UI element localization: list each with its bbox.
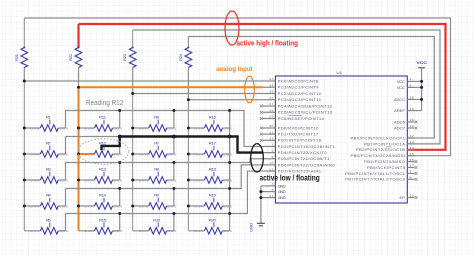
svg-text:24: 24 bbox=[269, 84, 273, 87]
svg-text:DKA: DKA bbox=[139, 153, 149, 156]
svg-text:CO6: CO6 bbox=[59, 230, 68, 233]
svg-text:PB3/PCINT3/OC2A/MOSI: PB3/PCINT3/OC2A/MOSI bbox=[351, 154, 405, 157]
svg-text:R13: R13 bbox=[99, 167, 107, 171]
svg-text:DKA: DKA bbox=[139, 179, 149, 182]
svg-text:R12: R12 bbox=[99, 141, 106, 145]
svg-text:DKA: DKA bbox=[85, 179, 95, 182]
svg-text:PC2/ADC2/PCINT10: PC2/ADC2/PCINT10 bbox=[278, 92, 322, 95]
svg-text:26: 26 bbox=[269, 96, 273, 99]
svg-text:CO6: CO6 bbox=[113, 205, 122, 208]
svg-text:R21: R21 bbox=[14, 53, 18, 61]
svg-text:DKA: DKA bbox=[139, 127, 149, 130]
svg-text:DKA: DKA bbox=[85, 153, 95, 156]
svg-text:PB2/PCINT2/SS/OC1B: PB2/PCINT2/SS/OC1B bbox=[356, 149, 406, 152]
svg-text:R22: R22 bbox=[68, 54, 72, 61]
svg-text:R19: R19 bbox=[209, 193, 217, 197]
svg-text:active low / floating: active low / floating bbox=[260, 173, 320, 182]
svg-text:DKA: DKA bbox=[30, 230, 40, 233]
svg-text:PC6/RESET/PCINT14: PC6/RESET/PCINT14 bbox=[278, 117, 324, 120]
svg-text:15: 15 bbox=[410, 152, 414, 155]
svg-text:20: 20 bbox=[410, 107, 414, 110]
svg-text:DKA: DKA bbox=[30, 179, 40, 182]
svg-text:PB1/PCINT1/OC1A: PB1/PCINT1/OC1A bbox=[364, 143, 405, 146]
svg-text:31: 31 bbox=[269, 131, 273, 134]
svg-text:DKA: DKA bbox=[30, 153, 40, 156]
svg-text:R11: R11 bbox=[99, 115, 107, 119]
svg-text:AVCC: AVCC bbox=[394, 98, 405, 101]
svg-text:29: 29 bbox=[269, 115, 273, 118]
svg-text:CO6: CO6 bbox=[59, 179, 68, 182]
svg-text:PD0/RXD/PCINT16: PD0/RXD/PCINT16 bbox=[278, 127, 319, 130]
svg-text:10: 10 bbox=[269, 161, 273, 164]
svg-text:6: 6 bbox=[410, 84, 412, 87]
svg-text:R16: R16 bbox=[209, 115, 217, 119]
svg-text:R7: R7 bbox=[154, 141, 159, 145]
svg-text:active high / floating: active high / floating bbox=[237, 40, 299, 47]
svg-text:PB5/SCK/PCINT5: PB5/SCK/PCINT5 bbox=[367, 166, 405, 169]
svg-text:PD5/PCINT21/OC0B/T1: PD5/PCINT21/OC0B/T1 bbox=[278, 158, 330, 161]
svg-text:7: 7 bbox=[410, 170, 412, 173]
svg-text:R20: R20 bbox=[209, 218, 217, 222]
svg-text:DKA: DKA bbox=[85, 127, 95, 130]
svg-text:CO6: CO6 bbox=[113, 153, 122, 156]
svg-text:9: 9 bbox=[272, 155, 274, 158]
svg-text:18: 18 bbox=[410, 96, 414, 99]
svg-text:CO6: CO6 bbox=[223, 205, 232, 208]
svg-text:CO6: CO6 bbox=[167, 205, 176, 208]
svg-text:8: 8 bbox=[410, 176, 412, 179]
svg-text:PB6/PCINT6/XTAL1/TOSC1: PB6/PCINT6/XTAL1/TOSC1 bbox=[345, 172, 405, 175]
svg-text:DKA: DKA bbox=[30, 127, 40, 130]
svg-text:PC0/ADC0/PCINT8: PC0/ADC0/PCINT8 bbox=[278, 80, 319, 83]
svg-text:DKA: DKA bbox=[85, 230, 95, 233]
svg-text:CO6: CO6 bbox=[113, 179, 122, 182]
svg-text:PD2/INT0/PCINT18: PD2/INT0/PCINT18 bbox=[278, 139, 322, 142]
svg-text:12: 12 bbox=[410, 135, 414, 138]
svg-text:23: 23 bbox=[269, 78, 273, 81]
svg-text:PD4/PCINT20/XCK/T0: PD4/PCINT20/XCK/T0 bbox=[278, 151, 327, 154]
svg-text:R2: R2 bbox=[46, 141, 51, 145]
svg-text:ADC7: ADC7 bbox=[394, 127, 405, 130]
svg-text:DKA: DKA bbox=[194, 230, 204, 233]
svg-text:R14: R14 bbox=[99, 193, 107, 197]
svg-text:DKA: DKA bbox=[194, 205, 204, 208]
svg-text:R17: R17 bbox=[209, 141, 216, 145]
svg-text:19: 19 bbox=[410, 118, 414, 121]
svg-text:DKA: DKA bbox=[194, 127, 204, 130]
svg-text:28: 28 bbox=[269, 109, 273, 112]
svg-text:R24: R24 bbox=[178, 53, 182, 61]
svg-text:PC4/ADC4/SDA/PCINT12: PC4/ADC4/SDA/PCINT12 bbox=[278, 105, 332, 108]
svg-text:27: 27 bbox=[269, 103, 273, 106]
svg-text:DKA: DKA bbox=[139, 205, 149, 208]
svg-text:R23: R23 bbox=[123, 53, 127, 61]
svg-text:CO6: CO6 bbox=[223, 153, 232, 156]
svg-text:11: 11 bbox=[269, 168, 273, 171]
svg-text:CO6: CO6 bbox=[223, 179, 232, 182]
svg-text:GND: GND bbox=[278, 196, 286, 199]
svg-text:EP: EP bbox=[399, 196, 405, 199]
svg-text:PC1/ADC1/PCINT9: PC1/ADC1/PCINT9 bbox=[278, 86, 319, 89]
svg-text:ADC6: ADC6 bbox=[394, 121, 405, 124]
svg-text:CO6: CO6 bbox=[113, 230, 122, 233]
svg-text:CO6: CO6 bbox=[59, 127, 68, 130]
svg-text:CO6: CO6 bbox=[167, 127, 176, 130]
svg-text:analog input: analog input bbox=[216, 66, 252, 73]
svg-text:DKA: DKA bbox=[194, 179, 204, 182]
svg-text:PB4/PCINT4/MISO: PB4/PCINT4/MISO bbox=[364, 160, 405, 163]
svg-text:PB0/PCINT0/CLKO/ICP1: PB0/PCINT0/CLKO/ICP1 bbox=[351, 137, 405, 140]
svg-text:CO6: CO6 bbox=[59, 205, 68, 208]
svg-text:R10: R10 bbox=[153, 218, 161, 222]
svg-text:DKA: DKA bbox=[85, 205, 95, 208]
svg-text:DKA: DKA bbox=[30, 205, 40, 208]
svg-text:GND: GND bbox=[278, 190, 286, 193]
svg-text:33: 33 bbox=[410, 194, 414, 197]
svg-text:3: 3 bbox=[272, 182, 274, 185]
svg-text:PB7/PCINT7/XTAL2/TOSC2: PB7/PCINT7/XTAL2/TOSC2 bbox=[345, 178, 405, 181]
svg-text:22: 22 bbox=[410, 125, 414, 128]
svg-text:CO6: CO6 bbox=[113, 127, 122, 130]
svg-text:DKA: DKA bbox=[139, 230, 149, 233]
svg-text:1: 1 bbox=[272, 143, 274, 146]
svg-text:CO6: CO6 bbox=[167, 230, 176, 233]
svg-text:13: 13 bbox=[410, 140, 414, 143]
svg-text:4: 4 bbox=[410, 78, 412, 81]
svg-text:CO6: CO6 bbox=[223, 127, 232, 130]
svg-text:2: 2 bbox=[272, 149, 274, 152]
svg-text:VCC: VCC bbox=[397, 86, 405, 89]
svg-text:GND: GND bbox=[278, 185, 286, 188]
svg-text:21: 21 bbox=[269, 194, 273, 197]
svg-text:PD6/PCINT22/OC0A/AIN0: PD6/PCINT22/OC0A/AIN0 bbox=[278, 164, 335, 167]
svg-text:CO6: CO6 bbox=[167, 179, 176, 182]
svg-text:PD1/TXD/PCINT17: PD1/TXD/PCINT17 bbox=[278, 133, 319, 136]
svg-text:CO6: CO6 bbox=[59, 153, 68, 156]
svg-text:CO6: CO6 bbox=[167, 153, 176, 156]
svg-text:PD3/PCINT19/OC2B/INT1: PD3/PCINT19/OC2B/INT1 bbox=[278, 145, 335, 148]
svg-text:17: 17 bbox=[410, 164, 414, 167]
svg-text:25: 25 bbox=[269, 90, 273, 93]
svg-text:R18: R18 bbox=[209, 167, 217, 171]
svg-text:VCC: VCC bbox=[397, 80, 405, 83]
svg-text:U1: U1 bbox=[337, 71, 343, 75]
svg-text:16: 16 bbox=[410, 158, 414, 161]
svg-text:AREF: AREF bbox=[394, 109, 406, 112]
svg-text:32: 32 bbox=[269, 137, 273, 140]
svg-text:14: 14 bbox=[410, 146, 414, 149]
svg-text:5: 5 bbox=[272, 188, 274, 191]
svg-text:PC5/ADC5/SCL/PCINT13: PC5/ADC5/SCL/PCINT13 bbox=[278, 111, 332, 114]
svg-text:DKA: DKA bbox=[194, 153, 204, 156]
svg-text:Reading R12: Reading R12 bbox=[86, 100, 123, 107]
svg-text:30: 30 bbox=[269, 125, 273, 128]
svg-text:VCC: VCC bbox=[416, 61, 427, 65]
svg-text:R15: R15 bbox=[99, 218, 107, 222]
svg-text:CO6: CO6 bbox=[223, 230, 232, 233]
svg-text:PC3/ADC3/PCINT11: PC3/ADC3/PCINT11 bbox=[278, 99, 322, 102]
svg-text:GND: GND bbox=[249, 223, 253, 233]
